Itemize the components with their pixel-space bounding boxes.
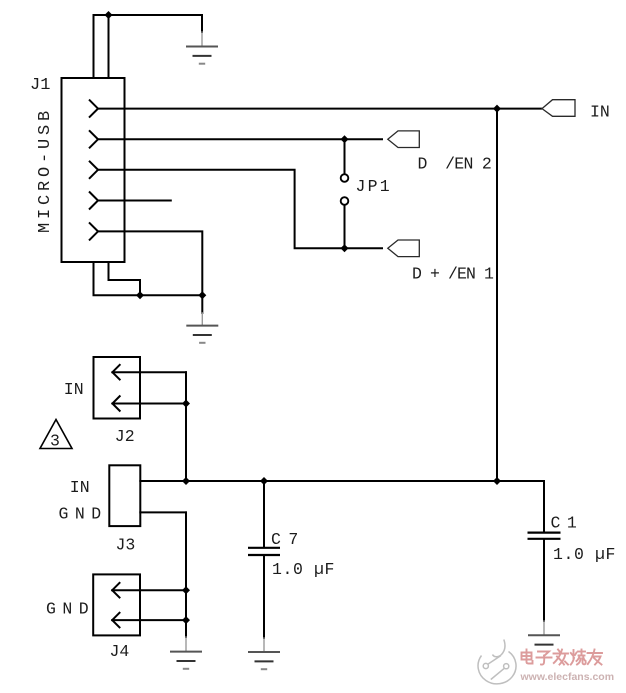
svg-text:MICRO-USB: MICRO-USB [36, 107, 55, 233]
svg-text:D + /EN 1: D + /EN 1 [412, 265, 494, 284]
svg-text:IN: IN [590, 102, 610, 121]
svg-text:GND: GND [46, 600, 95, 619]
svg-text:JP1: JP1 [356, 177, 392, 196]
svg-text:1.0 µF: 1.0 µF [272, 560, 335, 579]
svg-text:J4: J4 [110, 642, 130, 661]
svg-text:1.0 µF: 1.0 µF [553, 545, 616, 564]
svg-text:J1: J1 [30, 76, 50, 95]
svg-text:J2: J2 [115, 427, 135, 446]
svg-text:J3: J3 [116, 536, 136, 555]
svg-text:GND: GND [59, 505, 108, 524]
svg-text:D /EN 2: D /EN 2 [418, 155, 492, 174]
svg-text:www.elecfans.com: www.elecfans.com [520, 671, 615, 683]
svg-text:IN: IN [70, 478, 90, 497]
svg-text:C1: C1 [551, 514, 584, 533]
svg-text:3: 3 [50, 432, 60, 451]
svg-text:IN: IN [64, 380, 84, 399]
svg-text:C7: C7 [271, 530, 306, 549]
